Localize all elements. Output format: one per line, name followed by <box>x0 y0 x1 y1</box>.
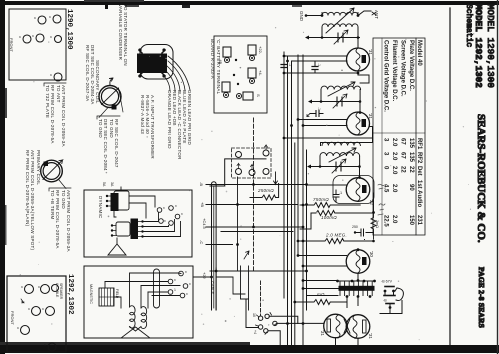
wire bus A <box>283 52 285 298</box>
primary coil pictorial circle <box>41 160 66 189</box>
wire bus C <box>291 61 293 345</box>
variable arrow T1 <box>326 8 354 33</box>
svg-text:x: x <box>163 206 165 210</box>
wire T3 to V3 <box>359 167 361 178</box>
note: RF SEC COIL TO GND <box>98 119 119 171</box>
border frame bottom bar <box>0 342 499 353</box>
field coil unit <box>106 191 129 211</box>
internal wires <box>130 273 182 307</box>
wire switch to bottom <box>268 331 280 345</box>
svg-text:+22-: +22- <box>258 46 263 55</box>
svg-text:VARIABLE CONDENSER: VARIABLE CONDENSER <box>118 4 123 61</box>
wire bus F <box>302 55 304 345</box>
wire V1 filament return <box>284 70 358 73</box>
svg-text:'31: '31 <box>368 333 373 339</box>
svg-text:RF SEC COIL D-2047-3A: RF SEC COIL D-2047-3A <box>85 45 90 101</box>
svg-text:'31: '31 <box>368 49 373 55</box>
resistor R2 750m <box>300 197 360 208</box>
wire V4 plate to transformer <box>357 273 359 281</box>
filter choke unit <box>99 288 119 306</box>
svg-text:'C' BATTERY TERMINAL: 'C' BATTERY TERMINAL <box>216 39 221 95</box>
wire jack to ground bus <box>380 313 390 315</box>
detector coil T3 top <box>322 142 360 145</box>
svg-text:2.0: 2.0 <box>391 138 397 147</box>
switch S2 contacts <box>252 313 277 335</box>
svg-text:ORANGE LEAD PRI GRID: ORANGE LEAD PRI GRID <box>167 90 172 149</box>
right edge line <box>497 0 498 354</box>
svg-text:Det: Det <box>416 166 422 176</box>
capacitor C1 .1 <box>281 63 292 68</box>
svg-text:MAGNETIC: MAGNETIC <box>89 284 93 304</box>
svg-text:5A: 5A <box>102 182 106 187</box>
svg-text:22.5: 22.5 <box>383 215 389 227</box>
svg-text:x: x <box>185 270 187 274</box>
svg-text:+C4.5: +C4.5 <box>202 218 207 230</box>
svg-text:2mΩ: 2mΩ <box>375 220 379 228</box>
brace marks <box>97 116 120 119</box>
output tubes V5a V5b '31 push-pull <box>320 314 347 338</box>
tube socket layout circle c <box>52 285 59 292</box>
svg-text:x: x <box>41 308 45 310</box>
svg-text:Control Grid Voltage D.C.: Control Grid Voltage D.C. <box>383 40 389 112</box>
svg-text:.1: .1 <box>317 63 321 66</box>
wire battery leads <box>199 182 307 271</box>
tube V4 '30 1st audio <box>346 250 374 274</box>
wire speaker cable pair <box>212 182 217 310</box>
internal wires <box>120 187 122 191</box>
svg-text:67: 67 <box>400 152 406 159</box>
svg-text:2.0: 2.0 <box>391 215 397 224</box>
svg-text:Filament Voltage D.C.: Filament Voltage D.C. <box>391 40 397 102</box>
grid capacitor C3 <box>307 107 323 117</box>
terminal lug 4 <box>222 82 230 92</box>
svg-text:x: x <box>37 286 41 288</box>
tube V2 '31 RF amplifier <box>347 112 374 135</box>
terminal lug 2 <box>248 45 256 55</box>
wire T2 ends <box>321 90 360 102</box>
gnd terminal <box>299 11 307 22</box>
svg-text:-C: -C <box>199 240 204 244</box>
trimmer line 2 <box>308 94 360 108</box>
tube socket V5 layout circle <box>55 36 62 43</box>
tube socket V1 layout circle <box>38 16 46 24</box>
svg-text:mΩ: mΩ <box>317 292 325 297</box>
svg-text:x: x <box>43 344 47 346</box>
svg-text:x: x <box>189 282 191 286</box>
note: PRIMARY COIL <box>25 150 41 251</box>
speaker cone <box>108 244 126 255</box>
wire T2 bottom to V2 <box>359 102 361 113</box>
arrow mark <box>21 299 24 303</box>
svg-text:100mΩ: 100mΩ <box>321 215 337 220</box>
svg-text:231: 231 <box>416 215 422 226</box>
title strip separator rule <box>449 8 451 345</box>
antenna coil T1 secondary <box>322 12 358 15</box>
svg-text:90: 90 <box>408 184 414 191</box>
jack J1 with capacitor block <box>381 280 403 314</box>
variable arrow T2 <box>328 82 355 96</box>
svg-text:Plate Voltage D.C.: Plate Voltage D.C. <box>408 40 414 91</box>
svg-text:MODEL 1292,1302: MODEL 1292,1302 <box>473 4 483 88</box>
svg-text:.1: .1 <box>317 107 321 110</box>
svg-text:& CABLE: & CABLE <box>55 283 59 298</box>
capacitor C2 .1 <box>312 61 321 73</box>
terminal lug 1 <box>223 47 231 57</box>
svg-text:250mΩ: 250mΩ <box>257 188 274 193</box>
svg-text:x: x <box>48 16 52 18</box>
wire bus D <box>294 143 296 345</box>
svg-text:PRIMARY COIL: PRIMARY COIL <box>36 150 41 185</box>
svg-text:S: S <box>256 94 261 97</box>
volume control R7 dashed box <box>232 145 272 178</box>
tube socket V3 layout circle <box>23 35 31 43</box>
svg-text:TO ANT: TO ANT <box>56 85 61 103</box>
terminal lug 5 horizontal <box>243 92 253 100</box>
svg-text:GND: GND <box>299 11 304 22</box>
svg-text:150: 150 <box>408 215 414 226</box>
svg-text:135: 135 <box>408 138 414 149</box>
svg-text:-B: -B <box>199 182 204 186</box>
tube socket layout circle e <box>46 307 55 316</box>
svg-text:x: x <box>181 212 183 216</box>
svg-text:TO +B TERM: TO +B TERM <box>50 190 55 219</box>
svg-text:CABLE: CABLE <box>210 281 215 294</box>
note: A.F. INPUT TRANSFORMER <box>140 95 155 159</box>
svg-text:'30: '30 <box>369 251 374 257</box>
svg-text:2.0 MEG.: 2.0 MEG. <box>325 233 347 238</box>
tube socket layout circle f <box>21 326 30 335</box>
wire switch to bus <box>269 316 298 323</box>
svg-text:3A: 3A <box>110 182 114 187</box>
svg-text:RF1: RF1 <box>416 138 422 150</box>
svg-text:3: 3 <box>383 152 389 156</box>
tube socket V6 layout circle <box>54 73 62 81</box>
wire V4 cathode <box>303 265 347 267</box>
svg-text:x: x <box>18 36 22 38</box>
wire T1 to ANT <box>358 11 371 16</box>
switch S1 <box>244 251 249 259</box>
svg-text:x: x <box>49 74 53 76</box>
wire V1 grid <box>284 55 347 57</box>
antenna coil T1 primary <box>322 24 358 27</box>
driver coils <box>130 306 136 328</box>
tube socket layout circle d <box>32 307 41 316</box>
terminals <box>157 204 183 225</box>
svg-text:+22: +22 <box>202 272 207 280</box>
svg-text:FRONT: FRONT <box>10 311 15 325</box>
cable grommet oval <box>154 269 160 308</box>
svg-text:10: 10 <box>252 313 256 317</box>
brace mark <box>49 188 71 191</box>
svg-text:TO 732 PLATE: TO 732 PLATE <box>45 85 50 118</box>
tube socket layout circle b <box>41 285 50 294</box>
svg-text:R-9837-A Mod 43: R-9837-A Mod 43 <box>140 95 145 134</box>
svg-text:-4B: -4B <box>218 58 223 65</box>
svg-text:'31: '31 <box>320 330 325 336</box>
note: ANT PRIM COIL / TO ANT <box>45 85 66 147</box>
svg-text:-B: -B <box>383 299 387 303</box>
svg-text:x: x <box>33 17 37 19</box>
socket layout box 1292,1302 <box>7 276 66 352</box>
wire V3 grid <box>307 184 347 186</box>
resistor R5 2.0 MEG. <box>300 233 375 244</box>
capacitor C4 on V3 cathode <box>333 190 342 202</box>
lead curves <box>168 56 190 90</box>
wire bus B <box>287 56 289 345</box>
resistor R1 250m <box>250 184 279 201</box>
svg-text:22: 22 <box>400 166 406 173</box>
svg-text:FRONT: FRONT <box>9 38 14 52</box>
svg-text:DYNAMIC: DYNAMIC <box>98 196 103 219</box>
wire V2 plate <box>321 127 373 146</box>
svg-text:135: 135 <box>408 152 414 163</box>
wire bus E <box>297 55 299 256</box>
detector coil T3 bottom <box>320 153 360 156</box>
output transformer unit <box>111 219 144 240</box>
brace mark <box>44 83 66 86</box>
svg-text:2.0: 2.0 <box>391 184 397 193</box>
svg-text:1292,1302: 1292,1302 <box>66 274 74 315</box>
trimmer line 1 <box>305 30 360 44</box>
svg-text:22: 22 <box>408 166 414 173</box>
svg-text:67: 67 <box>400 138 406 145</box>
wire cable to output L <box>216 277 245 294</box>
resistor R6 <box>294 292 346 305</box>
svg-text:x: x <box>49 36 53 38</box>
svg-text:Model 40: Model 40 <box>416 40 422 66</box>
antenna coil pictorial circle <box>99 78 123 118</box>
wire cable riser <box>241 266 249 299</box>
svg-text:1: 1 <box>174 288 176 292</box>
wire V5a plate down <box>335 338 337 345</box>
svg-text:+4-: +4- <box>258 70 263 77</box>
rf coil T2 <box>321 86 361 89</box>
interstage transformer T4 <box>336 280 376 298</box>
wire gnd to T1 <box>306 15 322 17</box>
wire long return y138 <box>284 137 373 139</box>
svg-text:BOARD R-3703-A: BOARD R-3703-A <box>210 39 215 79</box>
svg-text:x: x <box>174 278 176 282</box>
wire cable riser 2 <box>248 266 250 310</box>
tube socket layout circle a <box>25 285 34 294</box>
trimmer line 3 <box>307 159 360 173</box>
svg-text:x: x <box>27 308 31 310</box>
svg-text:TO GND: TO GND <box>109 119 114 138</box>
wire T1 right down <box>357 27 359 48</box>
svg-text:+B: +B <box>200 202 205 207</box>
terminal lug 3 <box>248 68 256 78</box>
svg-text:x: x <box>175 204 177 208</box>
battery terminal board <box>210 36 267 113</box>
resistor R4 vertical 2meg <box>371 213 379 239</box>
wire V1 cathode <box>292 60 348 62</box>
svg-text:250: 250 <box>352 225 358 229</box>
svg-text:3: 3 <box>383 138 389 142</box>
wire switch riser dashed <box>260 281 262 316</box>
svg-text:PAGE 2-8 SEARS: PAGE 2-8 SEARS <box>477 267 486 328</box>
wire T1 left down <box>321 27 323 38</box>
wire V1 plate to T2 <box>358 71 369 83</box>
wire bus G <box>306 150 308 310</box>
wire V5b plate down <box>357 338 359 345</box>
svg-text:RF PRIM COIL D-2078-5A(PLAIN): RF PRIM COIL D-2078-5A(PLAIN) <box>25 150 30 227</box>
board dots <box>235 59 237 61</box>
wire T4 secondary to V5 <box>347 298 358 308</box>
svg-text:RF2: RF2 <box>416 152 422 164</box>
variable arrow T3 <box>329 148 356 162</box>
arrow to R1 <box>274 172 278 184</box>
pencil marks near table <box>378 184 385 189</box>
svg-text:0: 0 <box>383 166 389 170</box>
svg-text:x: x <box>20 286 24 288</box>
border frame top bar <box>0 0 499 9</box>
svg-text:1st Audio: 1st Audio <box>416 180 422 207</box>
svg-text:.1: .1 <box>339 191 342 195</box>
border frame left bar <box>0 0 7 354</box>
terminals <box>168 270 191 298</box>
svg-text:750mΩ: 750mΩ <box>313 197 329 202</box>
capacitor C5 250mmf <box>352 225 374 240</box>
speaker cone 2 <box>121 327 150 338</box>
svg-text:TO GND: TO GND <box>98 119 103 138</box>
wire volume into circuit <box>225 159 266 186</box>
tube socket V4 layout circle <box>36 34 44 42</box>
wires lower left of output <box>303 280 338 282</box>
wire V5 grid feed <box>277 322 324 324</box>
wire V4 grid <box>298 255 347 257</box>
wire switch from speaker <box>246 300 258 328</box>
svg-text:ANT: ANT <box>374 10 379 19</box>
svg-text:TO GND: TO GND <box>61 190 66 209</box>
svg-text:-B 67V: -B 67V <box>381 280 393 284</box>
note: ANT PRIM COIL TO GND <box>50 190 71 252</box>
svg-text:x: x <box>16 327 20 329</box>
note: TO STATOR TERMINAL <box>118 4 128 66</box>
svg-text:2.0: 2.0 <box>391 166 397 175</box>
tube V3 '32 detector with shield <box>333 176 374 206</box>
note: SECONDARY COIL <box>85 45 100 105</box>
svg-text:1290,1300: 1290,1300 <box>65 9 73 50</box>
AF input transformer pictorial <box>137 45 190 92</box>
tube V1 '31 RF amplifier <box>347 48 374 71</box>
wire V2 grid <box>298 119 347 121</box>
svg-text:SEARS-ROEBUCK & CO.: SEARS-ROEBUCK & CO. <box>475 114 487 243</box>
socket layout box 1290,1300 <box>9 9 66 81</box>
svg-text:Schematic: Schematic <box>464 4 473 47</box>
svg-text:x: x <box>186 292 188 296</box>
svg-text:x: x <box>31 35 35 37</box>
wire V2 cathode <box>303 125 347 127</box>
battery cable dashed <box>253 118 255 270</box>
svg-text:x: x <box>164 219 166 223</box>
svg-text:+4: +4 <box>253 330 257 334</box>
tube socket layout circle g <box>48 343 56 351</box>
svg-text:Screen Voltage D.C.: Screen Voltage D.C. <box>400 40 406 97</box>
wire V3 plate down right <box>373 193 375 213</box>
push-pull cross wires <box>344 319 350 333</box>
svg-text:MODEL 1290,1300: MODEL 1290,1300 <box>485 4 495 88</box>
voltage table (rotated page group) <box>373 38 425 235</box>
wires speaker2 to chassis <box>193 276 212 278</box>
svg-text:'31: '31 <box>368 113 373 119</box>
note: lead colors <box>167 90 192 160</box>
svg-text:2.0: 2.0 <box>391 152 397 161</box>
antenna terminal ANT <box>372 10 379 19</box>
resistor R3 100m with wires <box>300 211 372 230</box>
tube socket V2 layout circle <box>53 15 61 23</box>
